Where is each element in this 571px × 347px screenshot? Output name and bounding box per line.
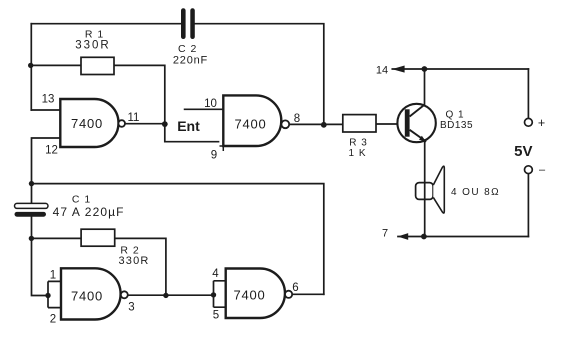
transistor Q1 collector stroke: [410, 105, 425, 117]
NAND gate IC1b 7400 (pins 10,9 -> 8) body: [223, 95, 281, 146]
NAND gate IC1a output bubble: [118, 120, 125, 127]
svg-text:4: 4: [212, 268, 219, 280]
wire R2 right lead down to node 3: [115, 238, 166, 295]
wire R3 to Q1 base: [375, 123, 405, 125]
svg-text:5V: 5V: [514, 143, 532, 160]
svg-text:7400: 7400: [233, 288, 265, 303]
svg-text:+: +: [538, 116, 545, 130]
wire node 8 to R3: [289, 123, 343, 125]
capacitor C1 top plate: [15, 203, 49, 208]
svg-text:1: 1: [50, 270, 56, 282]
node emitter / pin 7 junction: [421, 234, 427, 240]
svg-text:12: 12: [45, 145, 58, 157]
svg-text:Q 1: Q 1: [445, 110, 464, 121]
wire Q1 collector up to pin 14 rail: [424, 69, 426, 105]
capacitor C1 bottom plate: [15, 212, 47, 217]
wire left rail upper (top rail to pin 13): [30, 24, 32, 110]
NAND gate IC1b left-edge overshoot tick at pin 9: [220, 146, 225, 151]
NAND gate IC1b output bubble: [281, 120, 289, 128]
NAND gate IC1d output bubble: [285, 291, 292, 298]
speaker horn cone: [433, 166, 444, 213]
wire - terminal down right rail: [527, 174, 529, 237]
speaker driver square: [416, 183, 434, 200]
svg-text:7400: 7400: [71, 289, 103, 304]
wire gate4 output 6 to corner: [292, 293, 324, 295]
node R1 tap on left rail: [28, 63, 33, 68]
NAND gate IC1c 7400 (pins 1,2 -> 3) body: [61, 268, 121, 319]
wire gate3 input tie bar with pin 1,2 stubs: [48, 281, 61, 307]
svg-text:47 A 220µF: 47 A 220µF: [53, 205, 125, 219]
pin 14 arrowhead: [392, 66, 405, 73]
wire gate1 output 11 to node Ent: [125, 123, 165, 125]
svg-text:BD135: BD135: [440, 120, 473, 131]
svg-text:C 1: C 1: [72, 194, 91, 206]
resistor R1 body: [81, 57, 114, 74]
svg-text:330R: 330R: [118, 255, 149, 267]
node R2 tap on left rail: [29, 236, 34, 241]
wire gate4 input tie bar with pin 4,5 stubs: [214, 281, 226, 307]
wire right rail to + terminal: [527, 69, 529, 118]
resistor R3 body: [343, 115, 376, 132]
wire bottom rail (pin 7 line): [398, 236, 528, 238]
node 3 junction: [163, 293, 168, 298]
wire top rail right segment (C2 to node 8 corner): [195, 24, 324, 125]
wire Q1 emitter down through speaker to bottom rail: [424, 141, 426, 237]
svg-text:R 3: R 3: [349, 138, 368, 149]
transistor Q1 emitter stroke: [410, 130, 427, 142]
NAND gate IC1a 7400 (pins 13,12 -> 11) body: [60, 99, 118, 147]
pin 7 arrowhead: [398, 233, 409, 240]
node collector / pin 14 junction: [422, 66, 428, 72]
svg-text:10: 10: [204, 98, 217, 110]
svg-text:3: 3: [128, 302, 134, 314]
wire pin 14 rail to right rail: [392, 68, 528, 70]
svg-text:7400: 7400: [71, 116, 103, 131]
svg-text:11: 11: [128, 112, 140, 124]
transistor Q1 emitter arrowhead: [419, 136, 426, 142]
svg-text:4 OU 8Ω: 4 OU 8Ω: [451, 187, 500, 198]
svg-text:Ent: Ent: [177, 118, 200, 134]
svg-text:7400: 7400: [234, 117, 266, 132]
wire pin 13 stub: [31, 109, 60, 111]
wire node Ent down to pin 9: [165, 124, 219, 142]
wire R1 right lead down to node Ent: [114, 65, 165, 124]
node Ent junction: [162, 121, 168, 127]
capacitor C2 right plate: [190, 8, 195, 39]
resistor R2 body: [81, 229, 115, 246]
wire top rail left segment (to C2): [31, 23, 181, 25]
wire left rail lower (C1 to gate3 inputs): [32, 217, 49, 296]
capacitor C2 left plate: [181, 8, 186, 39]
svg-text:220nF: 220nF: [173, 55, 208, 67]
node lower-rail / bottom-box corner: [29, 181, 34, 186]
wire pin 12 to lower rail: [32, 138, 61, 203]
wire gate3 output 3 to gate4 inputs: [128, 294, 214, 296]
svg-text:1 K: 1 K: [348, 148, 366, 159]
+ supply terminal circle: [525, 118, 533, 126]
transistor Q1 BD135 body circle: [397, 104, 435, 142]
svg-text:2: 2: [50, 314, 56, 326]
node gate3 input tie: [45, 293, 50, 298]
svg-text:6: 6: [292, 282, 298, 294]
svg-text:8: 8: [294, 113, 300, 125]
NAND gate IC1d 7400 (pins 4,5 -> 6) body: [226, 269, 285, 319]
svg-text:7: 7: [382, 228, 388, 240]
svg-text:13: 13: [42, 94, 55, 106]
wire bottom-box top side (node to gate4 output corner): [32, 184, 324, 295]
svg-text:C 2: C 2: [178, 43, 197, 55]
NAND gate IC1c output bubble: [121, 291, 128, 298]
transistor Q1 base bar: [405, 109, 410, 136]
wire R2 left lead: [31, 237, 81, 239]
svg-text:9: 9: [211, 150, 217, 162]
svg-text:14: 14: [376, 65, 388, 77]
- supply terminal circle: [525, 166, 533, 174]
node gate4 input tie: [211, 292, 216, 297]
svg-text:–: –: [539, 164, 546, 176]
wire R1 left lead: [31, 64, 82, 66]
node 8 junction: [321, 122, 327, 128]
svg-text:5: 5: [213, 310, 219, 322]
svg-text:330R: 330R: [75, 40, 111, 52]
wire pin 10 input stub (Ent input): [185, 108, 224, 110]
